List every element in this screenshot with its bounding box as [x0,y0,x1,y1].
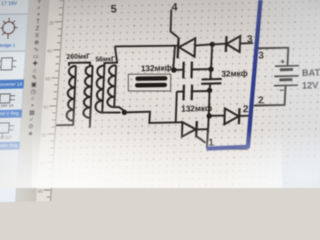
transformer T1 secondary coil column 4 [107,65,116,107]
wire T1 to VS2 jog [124,112,182,123]
lighting overlays [0,0,320,188]
wire C2 left lead [177,91,184,93]
diode VD2 cathode bar [238,108,241,124]
wire C1 left lead with dot [171,67,176,72]
transformer T1 secondary junction dot [122,110,127,115]
transformer T1 primary bottom lead left [54,121,73,126]
transformer T1 coil column 2 stem [90,66,93,128]
wire C1 right lead to bus [192,68,211,70]
toolbar strip [16,0,51,202]
transformer T1 bridge secondary top with lead up [104,47,117,66]
junction dot2 [208,67,213,72]
component library panel [0,0,31,202]
wire VD2 to blue bus node 2 [239,115,252,117]
junction dot1 [210,42,215,47]
wire node1 vertical down [207,129,208,148]
wire W1 top-left horizontal [115,45,179,48]
ruler strip [36,0,65,201]
wire dot1 to diode VD1 [212,43,226,46]
bus vertical dot1-dot2 [211,45,212,70]
capacitor C1 plate left [182,62,185,79]
battery BAT plate short 2 [279,78,292,81]
transformer T1 secondary coil column 3 stem [102,66,104,113]
wire node1 bottom to blue corner [207,147,248,150]
schematic canvas svg [0,0,320,188]
selected capacitor plate bar top [138,76,166,81]
transformer T1 primary coil column 1 stem [73,66,76,121]
diode VD2 triangle [224,108,238,124]
blue selected wire bus [207,0,261,149]
capacitor C1 plate right [190,62,193,79]
junction dot4 [207,113,212,118]
transformer T1 primary coil column 1 [67,66,76,121]
transformer T1 secondary coil column 4 stem [114,65,116,107]
battery BAT plate short 1 [280,68,293,71]
thyristor VS2 output wire [197,128,209,130]
left UI panels (tilted) [0,0,80,202]
bus segment dot3-dot4 [208,90,211,115]
wire V1 from W1 down to node of C1 [173,46,175,70]
wire VD1 to blue bus node 3 [240,42,253,45]
bus segment dot4 down [207,116,210,130]
selection rectangle of selected capacitor [128,74,170,91]
thyristor VS1 gate wire from node 4 [171,10,178,38]
battery BAT plate long 1 [275,65,299,68]
diode VD1 cathode bar [225,36,228,52]
wire dot4 to diode VD2 [209,115,225,117]
wire W2 from VS1 to node dot1 [195,44,213,45]
svg-text:65: 65 [38,189,44,194]
battery BAT plate long 2 [274,75,298,78]
thyristor VS1 triangle [179,38,195,56]
junction dot3 [207,88,212,93]
thyristor VS2 triangle [182,122,196,137]
battery wire minus terminal to node 2 [254,86,286,106]
battery minus sign [280,89,284,91]
thyristor VS2 cathode bar [195,121,198,137]
transformer T1 bridge primary top [69,63,90,66]
battery BAT plate long 3 [274,84,298,87]
transformer T1 column 3 bottom lead [102,112,120,114]
battery plus sign [281,60,285,64]
thyristor VS1 cathode bar [178,37,179,58]
battery wire node 3 to plus terminal [256,48,288,66]
canvas paper background [0,0,320,188]
capacitor C2 plate left [182,85,185,101]
capacitor C3 plate top [202,78,222,81]
capacitor C2 plate right [191,85,194,101]
transformer T1 secondary coil column 3 [95,65,104,112]
bus segment C3 to dot3 [209,84,212,91]
diode VD1 triangle [226,36,240,52]
wire C2 right lead to dot3 [192,90,210,92]
wire C2 left lead vertical down [176,92,177,123]
selected capacitor plate bar bottom [137,83,165,88]
transformer T1 column 4 bottom lead to dot [114,107,124,112]
bus segment dot2 to C3 [209,69,212,79]
thyristor VS2 gate diagonal to node 1 [196,136,205,143]
transformer T1 coil column 2 [83,66,92,118]
capacitor C3 plate bottom [201,82,221,85]
